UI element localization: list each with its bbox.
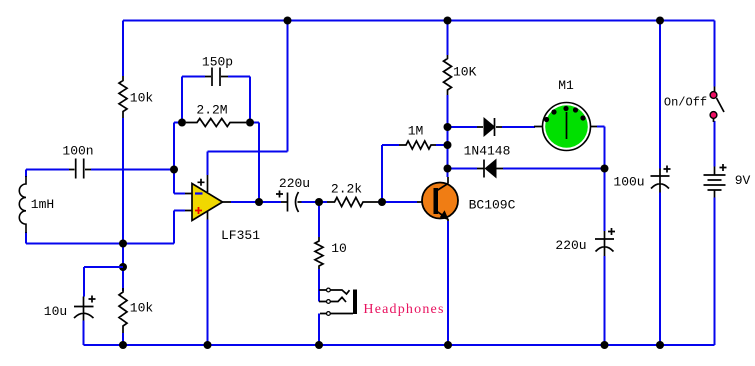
svg-text:10: 10 — [331, 241, 347, 256]
svg-text:9V: 9V — [735, 173, 751, 188]
svg-text:10K: 10K — [453, 65, 477, 80]
svg-text:Headphones: Headphones — [363, 302, 444, 317]
svg-text:150p: 150p — [202, 55, 233, 70]
svg-text:2.2k: 2.2k — [331, 182, 362, 197]
svg-text:220u: 220u — [555, 238, 586, 253]
svg-text:1N4148: 1N4148 — [464, 144, 511, 159]
svg-text:BC109C: BC109C — [469, 198, 516, 213]
svg-text:On/Off: On/Off — [664, 96, 707, 110]
svg-text:10k: 10k — [130, 301, 154, 316]
svg-text:LF351: LF351 — [221, 228, 260, 243]
svg-text:220u: 220u — [279, 176, 310, 191]
svg-text:10k: 10k — [130, 91, 154, 106]
svg-text:100u: 100u — [613, 175, 644, 190]
svg-text:1M: 1M — [408, 124, 424, 139]
svg-text:10u: 10u — [44, 304, 67, 319]
svg-text:100n: 100n — [62, 144, 93, 159]
svg-text:M1: M1 — [558, 78, 574, 93]
svg-text:1mH: 1mH — [31, 197, 54, 212]
svg-text:2.2M: 2.2M — [196, 103, 227, 118]
